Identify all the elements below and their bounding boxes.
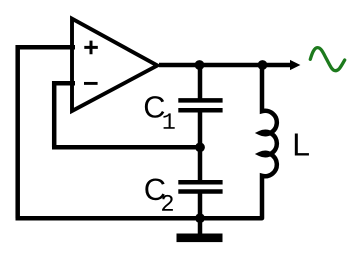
op-amp plus input symbol — [84, 41, 98, 55]
label C2 — [145, 178, 164, 200]
ground — [177, 234, 223, 243]
output sine waveform — [310, 48, 344, 71]
output arrow head — [290, 60, 300, 70]
wire: C1 bottom stub — [198, 110, 203, 147]
wire: non-inverting input feedback (left rail) — [18, 47, 75, 218]
wire: inverting input to divider midpoint — [54, 83, 75, 147]
capacitor C2 — [178, 182, 222, 191]
wire: op-amp output — [159, 63, 291, 68]
wire: ground stub — [198, 218, 203, 234]
node: output / C1 junction — [195, 60, 205, 70]
node: bottom rail junction — [195, 213, 205, 223]
wire: C2 bottom stub — [198, 192, 203, 219]
inductor L — [260, 65, 277, 218]
wire: C1 top stub — [198, 65, 203, 100]
label C1 — [145, 96, 164, 118]
wire: C2 top stub — [198, 147, 203, 182]
node: output / L junction — [258, 60, 268, 70]
node: C1/C2 midpoint junction — [195, 142, 205, 152]
wire: bottom ground rail — [16, 216, 262, 221]
capacitor C1 — [178, 100, 222, 110]
op-amp U1 — [72, 19, 157, 111]
label L — [295, 133, 309, 155]
wire: middle rail to C1/C2 junction — [52, 145, 200, 150]
op-amp minus input symbol — [84, 82, 98, 85]
